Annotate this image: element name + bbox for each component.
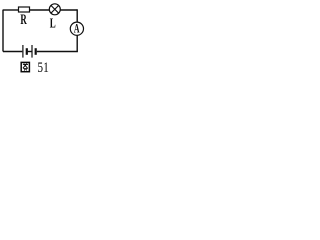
svg-text:R: R [20,11,27,28]
wire top-left horizontal segment [3,9,19,11]
wire top-right vertical down to ammeter [76,9,78,22]
battery cell 2 short plate (negative) [35,48,37,55]
battery cell 2 long plate (positive) [31,45,33,58]
lamp L [49,4,60,15]
wire lamp to top-right corner [60,9,77,11]
svg-text:L: L [50,17,56,31]
ammeter A [70,22,83,36]
svg-text:A: A [74,23,80,36]
wire left vertical [2,10,4,52]
battery cell 1 long plate (positive) [22,45,24,58]
wire between battery cells [28,51,32,53]
resistor R [19,7,30,12]
wire resistor to lamp [30,9,50,11]
wire battery to bottom-left corner [3,51,22,53]
battery cell 1 short plate (negative) [26,48,28,55]
wire bottom-right horizontal to battery [37,51,78,53]
caption character 图 [21,62,29,71]
wire ammeter down to bottom-right corner [76,35,78,51]
svg-text:51: 51 [37,59,48,76]
